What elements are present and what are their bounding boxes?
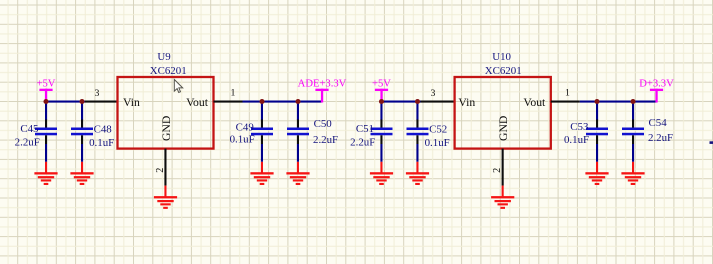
wire +5V rail to U10 input [380, 101, 420, 103]
capacitor C54 2.2uF [632, 102, 634, 121]
svg-text:C52: C52 [429, 123, 447, 135]
svg-text:0.1uF: 0.1uF [425, 137, 450, 149]
junction at C52 [415, 99, 420, 104]
svg-text:GND: GND [160, 116, 173, 141]
svg-text:3: 3 [431, 88, 436, 99]
svg-text:+5V: +5V [372, 79, 391, 90]
pin 1 Vout of U10 [551, 101, 580, 103]
svg-text:C54: C54 [649, 117, 668, 129]
svg-text:0.1uF: 0.1uF [564, 134, 589, 146]
svg-text:C48: C48 [94, 123, 113, 135]
svg-text:0.1uF: 0.1uF [89, 137, 114, 149]
svg-text:C51: C51 [356, 123, 374, 135]
capacitor C50 2.2uF [297, 102, 299, 121]
capacitor C52 0.1uF [416, 102, 418, 121]
svg-text:2.2uF: 2.2uF [15, 136, 40, 148]
svg-text:1: 1 [565, 88, 570, 99]
svg-text:2: 2 [492, 168, 503, 173]
svg-text:C50: C50 [314, 118, 333, 130]
op-amp-style regulator U10 XC6201 body [455, 77, 551, 149]
svg-text:GND: GND [497, 116, 510, 141]
ground below C50 [286, 172, 309, 174]
pin 2 GND of U10 [502, 149, 504, 186]
ground lead U10 pin 2 [502, 186, 504, 198]
wire +5V rail to U9 input [45, 101, 85, 103]
svg-text:2.2uF: 2.2uF [350, 136, 375, 148]
ground below C49 [250, 172, 273, 174]
svg-text:Vin: Vin [123, 96, 140, 109]
junction at C50 [295, 99, 300, 104]
ground below C51 [370, 172, 393, 174]
svg-text:1: 1 [231, 88, 236, 99]
junction at C51 [379, 99, 384, 104]
capacitor C45 2.2uF [45, 102, 47, 121]
junction at C49 [259, 99, 264, 104]
ground below U10 GND pin [491, 196, 514, 198]
svg-text:2.2uF: 2.2uF [313, 134, 338, 146]
svg-text:C49: C49 [236, 122, 254, 134]
svg-text:D+3.3V: D+3.3V [639, 79, 674, 90]
svg-text:C53: C53 [570, 121, 589, 133]
capacitor C53 0.1uF [596, 102, 598, 121]
svg-text:2: 2 [155, 168, 166, 173]
svg-text:Vout: Vout [523, 96, 546, 109]
op-amp-style regulator U9 XC6201 body [118, 77, 214, 149]
junction at C54 [630, 99, 635, 104]
pin 2 GND of U9 [164, 149, 166, 186]
svg-text:C45: C45 [20, 123, 39, 135]
svg-text:2.2uF: 2.2uF [648, 132, 673, 144]
ground below C54 [621, 172, 644, 174]
pin 3 Vin of U10 [421, 101, 455, 103]
ground lead U9 pin 2 [164, 186, 166, 198]
clipped neighbour label at right edge [710, 141, 713, 144]
svg-text:Vout: Vout [186, 96, 209, 109]
junction at C45 [43, 99, 48, 104]
junction at C53 [594, 99, 599, 104]
pin 1 Vout of U9 [214, 101, 243, 103]
svg-text:+5V: +5V [37, 79, 56, 90]
svg-text:ADE+3.3V: ADE+3.3V [298, 79, 347, 90]
svg-text:XC6201: XC6201 [150, 65, 187, 77]
svg-text:U9: U9 [157, 51, 170, 63]
junction at C48 [79, 99, 84, 104]
ground below C53 [585, 172, 608, 174]
svg-text:3: 3 [95, 88, 100, 99]
svg-text:Vin: Vin [458, 96, 475, 109]
mouse cursor [174, 80, 182, 93]
ground below U9 GND pin [154, 196, 177, 198]
pin 3 Vin of U9 [85, 101, 118, 103]
wire U10 output to D+3.3V [580, 101, 657, 103]
ground below C45 [34, 172, 57, 174]
ground below C48 [70, 172, 93, 174]
capacitor C49 0.1uF [261, 102, 263, 121]
capacitor C51 2.2uF [380, 102, 382, 121]
ground below C52 [406, 172, 429, 174]
svg-text:0.1uF: 0.1uF [230, 134, 255, 146]
svg-text:XC6201: XC6201 [485, 65, 522, 77]
wire U9 output to ADE+3.3V [243, 101, 323, 103]
capacitor C48 0.1uF [81, 102, 83, 121]
svg-text:U10: U10 [492, 51, 511, 63]
